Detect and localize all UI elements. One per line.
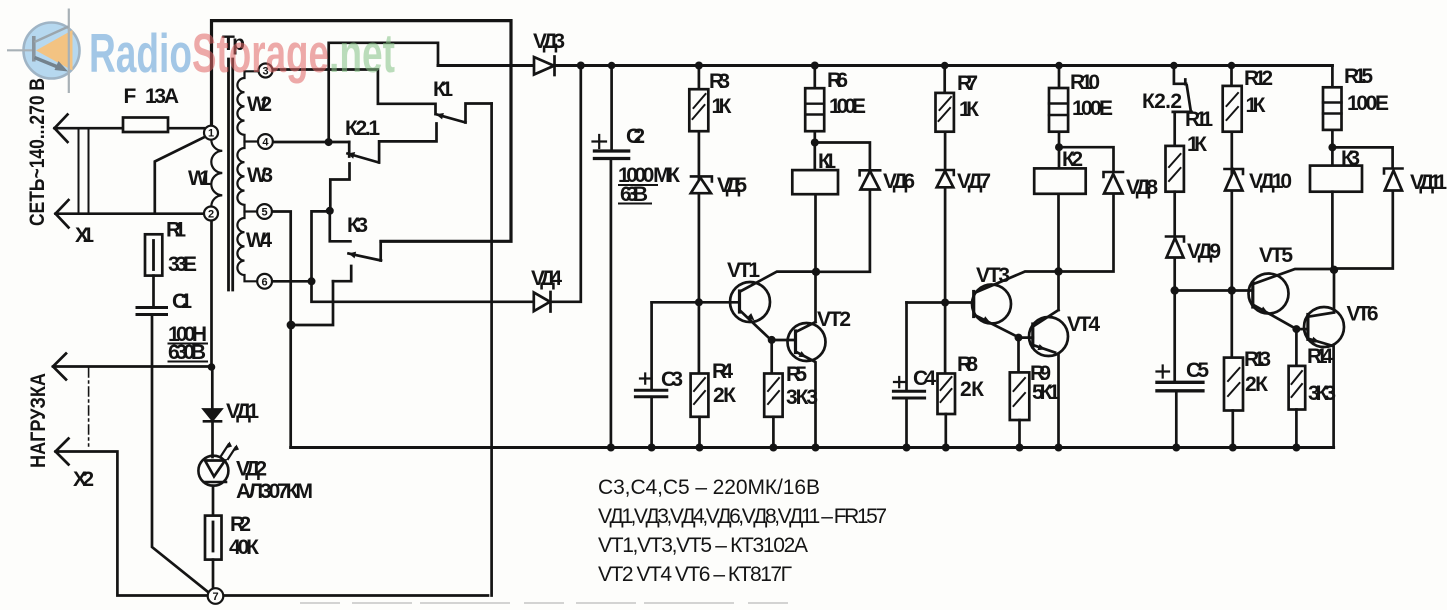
svg-text:VД9: VД9 [1187, 240, 1221, 263]
relay coil K3 [1310, 166, 1362, 192]
svg-text:1: 1 [208, 128, 214, 140]
resistor R13 [1224, 358, 1243, 411]
winding W2 [237, 71, 258, 141]
junction on load wire [208, 363, 216, 371]
capacitor C1 [137, 308, 167, 315]
logo RadioStorage.net [7, 9, 80, 94]
svg-text:С3,С4,С5 – 220МК/16В: С3,С4,С5 – 220МК/16В [598, 476, 820, 499]
logo transistor icon circle [24, 23, 80, 79]
wire R1 to C1 [152, 276, 155, 306]
svg-text:VТ6: VТ6 [1347, 303, 1379, 326]
svg-text:X2: X2 [73, 468, 94, 491]
svg-text:W1: W1 [188, 167, 211, 190]
main top rail [438, 64, 1332, 67]
winding W1 [211, 140, 222, 207]
wire mains cable double lines [79, 128, 89, 214]
transistor VT1 [730, 282, 770, 322]
transistor VT5 [1249, 274, 1289, 314]
svg-text:3К3: 3К3 [786, 386, 818, 409]
diode VD3 [534, 57, 554, 75]
capacitor C3 [650, 302, 653, 389]
diode VD6 [815, 143, 870, 171]
svg-text:R10: R10 [1070, 71, 1100, 94]
resistor R5 [770, 340, 773, 374]
svg-text:К2: К2 [1062, 148, 1083, 171]
resistor R10 branch [1058, 66, 1061, 169]
relay coil K1 [792, 170, 838, 194]
connector X1 arrow bottom [56, 200, 69, 228]
svg-text:VД11: VД11 [1410, 171, 1447, 194]
zener VD10 [1225, 169, 1244, 174]
wire X1 bottom to node 2 [56, 212, 205, 215]
node 1 [204, 126, 218, 140]
svg-text:1К: 1К [959, 98, 979, 121]
junction K2.1/K3 link [326, 207, 334, 215]
svg-text:R3: R3 [709, 70, 730, 93]
svg-text:С1: С1 [172, 290, 192, 313]
relay coil K2 [1034, 168, 1086, 193]
svg-text:2К: 2К [960, 378, 984, 401]
LED VD2 [198, 456, 228, 486]
capacitor C2 [610, 66, 613, 150]
svg-text:VТ4: VТ4 [1067, 313, 1100, 336]
zener VD5 [691, 176, 712, 181]
transistor VT2 [772, 339, 796, 342]
wire junction link at (291,325) [291, 281, 333, 325]
svg-text:VТ5: VТ5 [1259, 244, 1293, 267]
resistor R8 [938, 374, 956, 415]
wire node2 down to VD1 [210, 221, 214, 410]
svg-text:33Е: 33Е [168, 253, 197, 276]
capacitor C5 [1173, 291, 1176, 382]
svg-text:100Е: 100Е [1347, 92, 1389, 115]
wire base stage1 [652, 301, 740, 304]
logo icon emitter arrow [35, 58, 60, 68]
relay contact K2.2 [1173, 66, 1192, 146]
svg-text:Storage: Storage [192, 22, 329, 84]
svg-text:R2: R2 [230, 513, 251, 536]
logo icon collector line [35, 27, 69, 43]
svg-text:7: 7 [212, 591, 218, 603]
svg-text:W3: W3 [247, 164, 273, 187]
svg-text:R1: R1 [166, 219, 186, 242]
wire big loop node1-top-right to K3 contact [212, 21, 512, 242]
wire node6 right [272, 280, 312, 283]
svg-text:VД10: VД10 [1249, 170, 1292, 193]
wire VD4 to rail [551, 65, 581, 302]
svg-text:13А: 13А [145, 85, 179, 108]
svg-text:VД7: VД7 [957, 170, 991, 193]
capacitor C4 [905, 303, 908, 391]
diode VD4 [534, 293, 550, 312]
resistor R12 branch [1230, 66, 1233, 358]
svg-text:.net: .net [329, 22, 395, 84]
transistor VT4 [1019, 336, 1033, 339]
svg-text:R4: R4 [712, 360, 733, 383]
logo icon leads [7, 9, 69, 94]
svg-text:6: 6 [262, 276, 268, 288]
svg-text:R12: R12 [1244, 67, 1273, 90]
svg-text:VТ2: VТ2 [817, 308, 851, 331]
resistor R3 [689, 89, 708, 131]
wire K2.1 chain down to K3 contact [330, 211, 351, 242]
svg-text:2К: 2К [713, 384, 736, 407]
svg-text:VД1: VД1 [226, 400, 259, 423]
zener VD7 [937, 170, 954, 175]
svg-text:К1: К1 [433, 78, 453, 101]
emitter junctions [768, 336, 776, 344]
svg-text:4: 4 [262, 137, 269, 149]
svg-text:3К3: 3К3 [1308, 382, 1336, 405]
svg-text:5: 5 [261, 207, 267, 219]
svg-text:1К: 1К [1246, 94, 1266, 117]
svg-text:VД8: VД8 [1126, 176, 1158, 199]
svg-text:Radio: Radio [89, 22, 192, 84]
resistor R11 [1166, 146, 1184, 192]
wire VD4 branch [312, 281, 534, 302]
resistor R9 [1017, 338, 1020, 373]
svg-text:К3: К3 [1341, 147, 1360, 170]
svg-text:R8: R8 [957, 353, 978, 376]
resistor R15 branch [1331, 66, 1334, 166]
junction node6 wire [308, 277, 316, 285]
wire X2 bottom to bottom bus [56, 439, 489, 596]
resistor R7 branch [943, 66, 946, 374]
resistor R6 [805, 88, 824, 131]
svg-text:R7: R7 [957, 72, 978, 95]
wire node1 diagonal to R1 [155, 137, 206, 214]
logo icon triangle [36, 30, 73, 71]
underline C1 values [168, 344, 209, 362]
relay contact K2.1 [348, 124, 437, 163]
svg-text:VД5: VД5 [717, 174, 747, 197]
node 6 [257, 274, 272, 289]
svg-text:R6: R6 [827, 69, 848, 92]
svg-text:R11: R11 [1185, 108, 1213, 131]
svg-text:1К: 1К [712, 95, 732, 118]
svg-text:40К: 40К [229, 536, 259, 559]
winding W4 [237, 212, 257, 282]
relay top junctions [811, 139, 819, 147]
wire VD2 to R2 [212, 486, 215, 516]
svg-text:АЛ307КМ: АЛ307КМ [236, 480, 313, 503]
svg-text:F: F [124, 85, 137, 108]
rail junctions [577, 62, 585, 70]
wire K1 contact down to bottom wire [490, 104, 493, 596]
svg-text:X1: X1 [75, 224, 94, 247]
svg-text:2К: 2К [1245, 373, 1268, 396]
svg-text:С3: С3 [661, 368, 683, 391]
svg-text:5К1: 5К1 [1032, 381, 1060, 404]
resistor R2 [205, 516, 222, 560]
wire K2.1 lower lead down to node link [330, 164, 349, 211]
winding W3 [237, 142, 257, 212]
junction (291,325) [287, 321, 296, 330]
wire R2 to node 7 [212, 560, 215, 589]
transformer core [229, 59, 233, 290]
node 3 [259, 64, 273, 78]
diode VD1 [204, 410, 221, 422]
svg-text:R15: R15 [1344, 65, 1373, 88]
wire node6 link up to K2.1 chain [312, 211, 330, 281]
wire C1 down and diagonal to node 7 [152, 316, 208, 593]
resistor R6 branch [813, 66, 816, 171]
svg-text:К2.1: К2.1 [345, 117, 380, 140]
svg-text:VТ3: VТ3 [976, 264, 1010, 287]
relay contact K3 [349, 241, 382, 260]
svg-text:К2.2: К2.2 [1142, 90, 1182, 113]
transistor VT3 [972, 285, 1011, 324]
svg-text:100Е: 100Е [1072, 97, 1113, 120]
bottom rail [291, 446, 1334, 449]
resistor R14 [1295, 329, 1298, 366]
relay contact K3 lower lead [333, 266, 351, 281]
wire VD1 to VD2 [211, 421, 214, 457]
node 5 [257, 204, 272, 219]
wire node3 to K1 contact [273, 70, 436, 115]
resistor R15 [1323, 87, 1342, 130]
svg-text:W2: W2 [247, 93, 272, 116]
scan smudge bottom [300, 602, 790, 604]
connector X1 arrow top [55, 115, 68, 143]
resistor R12 [1223, 86, 1242, 132]
svg-text:С2: С2 [626, 125, 645, 148]
resistor R7 [936, 93, 954, 132]
wire X1 top to node 1 [55, 127, 205, 130]
svg-text:VД1,VД3,VД4,VД6,VД8,VД11 – FR1: VД1,VД3,VД4,VД6,VД8,VД11 – FR157 [598, 505, 887, 528]
svg-text:VД6: VД6 [883, 170, 915, 193]
svg-text:С5: С5 [1186, 359, 1209, 382]
transistor VT6 [1296, 328, 1308, 331]
bottom rail junctions [607, 444, 615, 452]
resistor R3 branch wire [698, 66, 701, 374]
wire load top (НАГРУЗКА) [53, 354, 212, 380]
svg-text:С4: С4 [913, 367, 936, 390]
relay contact K1 [436, 104, 492, 123]
resistor R1 [145, 234, 162, 275]
wire stepped top line to rail [329, 43, 438, 142]
svg-text:2: 2 [208, 209, 214, 221]
zener VD9 [1166, 237, 1184, 242]
base junctions [695, 298, 703, 306]
svg-text:VД4: VД4 [531, 267, 562, 290]
svg-text:W4: W4 [246, 229, 272, 252]
svg-text:VТ1,VТ3,VТ5 – КТ3102А: VТ1,VТ3,VТ5 – КТ3102А [598, 534, 808, 557]
node 7 [208, 588, 224, 604]
terminal node circles [204, 64, 273, 604]
diode VD11 [1332, 147, 1392, 168]
resistor R10 [1049, 88, 1068, 132]
svg-text:VД2: VД2 [236, 458, 267, 481]
collector junctions [812, 268, 820, 276]
junction node4 wire [325, 138, 333, 146]
svg-text:К1: К1 [818, 150, 836, 173]
svg-text:VД3: VД3 [533, 30, 565, 53]
svg-text:R14: R14 [1307, 345, 1333, 368]
wire base stage3 [1175, 289, 1253, 292]
wire node5 down to bottom rail [272, 212, 291, 448]
svg-text:VТ2 VТ4 VТ6 – КТ817Г: VТ2 VТ4 VТ6 – КТ817Г [598, 563, 792, 586]
logo icon base bar [32, 36, 36, 62]
wire node4 to K2.1 [273, 141, 349, 144]
svg-text:К3: К3 [347, 214, 368, 237]
svg-text:100Е: 100Е [829, 95, 866, 118]
node 2 [204, 207, 218, 221]
wire base stage2 [907, 301, 974, 304]
resistor R4 [691, 374, 709, 417]
diode VD8 [1059, 147, 1114, 171]
svg-text:НАГРУЗКА: НАГРУЗКА [27, 373, 50, 468]
LED VD2 emission arrows [221, 445, 236, 460]
svg-text:R13: R13 [1244, 348, 1271, 371]
node 4 [258, 134, 273, 149]
svg-text:VТ1: VТ1 [727, 259, 760, 282]
svg-text:1К: 1К [1187, 133, 1207, 156]
underline C2 values [618, 185, 658, 204]
svg-text:R5: R5 [786, 363, 807, 386]
fuse F 13A [123, 118, 168, 133]
wire X2 dash-dot axis [88, 368, 90, 446]
svg-text:СЕТЬ~140...270 В: СЕТЬ~140...270 В [26, 78, 49, 226]
